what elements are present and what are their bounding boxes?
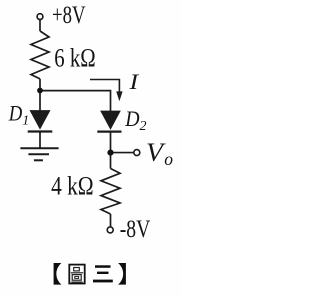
wire — [39, 91, 41, 111]
diode D2 — [101, 111, 120, 129]
wire — [114, 152, 134, 154]
svg-text:I: I — [128, 69, 140, 94]
svg-text:4 kΩ: 4 kΩ — [51, 172, 94, 201]
terminal -8V — [107, 227, 113, 233]
resistor R1 6k — [31, 31, 49, 79]
current arrow I — [90, 80, 119, 93]
caption glyph TU (figure) — [69, 265, 84, 284]
wire — [110, 132, 112, 153]
wire — [40, 91, 111, 112]
diode D1 — [30, 111, 49, 129]
svg-text:2: 2 — [140, 119, 147, 134]
wire — [110, 153, 112, 169]
wire — [39, 132, 41, 149]
arrowhead of current I — [116, 91, 122, 101]
svg-text:-8V: -8V — [120, 216, 151, 243]
junction node B — [107, 150, 113, 156]
wire — [110, 214, 112, 227]
junction node A — [37, 88, 43, 94]
svg-text:1: 1 — [22, 114, 29, 129]
svg-text:D: D — [124, 106, 139, 131]
caption bracket left — [54, 263, 62, 285]
caption bracket right — [118, 263, 126, 285]
svg-text:+8V: +8V — [52, 2, 86, 29]
ground — [20, 147, 58, 149]
terminal Vo — [134, 150, 140, 156]
wire — [39, 79, 41, 91]
svg-text:D: D — [8, 100, 22, 125]
resistor R2 4k — [101, 169, 120, 215]
svg-text:o: o — [164, 149, 173, 169]
caption glyph SAN (three) — [93, 265, 113, 282]
svg-text:6 kΩ: 6 kΩ — [54, 43, 95, 72]
wire — [39, 20, 41, 32]
terminal +8V — [37, 14, 43, 20]
